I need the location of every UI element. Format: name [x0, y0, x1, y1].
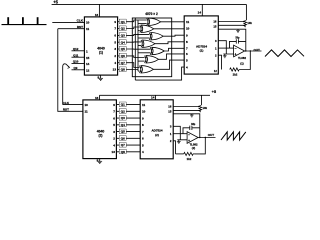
- svg-text:OUT: OUT: [208, 133, 215, 137]
- svg-text:11: 11: [86, 27, 90, 31]
- svg-text:10: 10: [186, 27, 190, 31]
- U2 pin 8 ground: [99, 159, 101, 162]
- resistor R1: [239, 51, 250, 70]
- svg-text:+: +: [235, 53, 237, 57]
- svg-text:1k2: 1k2: [233, 72, 238, 76]
- op-amp output wire: [245, 50, 262, 52]
- wires U1 outputs Q1..Q8 to gates: [118, 20, 153, 71]
- U4 VREF wire pin15: [218, 24, 245, 26]
- wires U2 outputs Q1..Q8 to DAC U5: [116, 105, 140, 152]
- ground: [178, 140, 180, 142]
- svg-text:15: 15: [86, 56, 90, 60]
- svg-text:1k2: 1k2: [187, 157, 192, 161]
- wire RST to U1 pin 11: [58, 28, 85, 30]
- svg-text:15: 15: [168, 109, 172, 113]
- sawtooth wave output symbol: [221, 132, 246, 140]
- XOR gate U3e: [150, 47, 164, 54]
- svg-text:Q5: Q5: [121, 130, 125, 134]
- U4 OUT1 pin1 to op-amp - input: [218, 47, 233, 49]
- XOR gate U3c: [149, 33, 163, 40]
- svg-text:Q8: Q8: [121, 68, 125, 72]
- feedback capacitor C2: [183, 128, 200, 134]
- svg-text:Q7: Q7: [121, 143, 125, 147]
- svg-text:Q7: Q7: [121, 61, 125, 65]
- ground: [191, 114, 193, 115]
- ground: [98, 78, 103, 80]
- clock pulse waveform annotation: [2, 17, 47, 24]
- svg-text:+5: +5: [212, 89, 217, 94]
- trimmer resistor vertical: [244, 20, 247, 27]
- wire Q8 under box to DAC pin 4: [135, 67, 184, 80]
- U5 VREF wire pin15: [173, 109, 200, 111]
- +5 drop to trimmer (bottom): [201, 95, 203, 105]
- svg-text:OUT: OUT: [254, 48, 261, 52]
- svg-text:(1): (1): [240, 61, 243, 65]
- svg-text:10: 10: [86, 21, 90, 25]
- U1 pin 16 to +5: [98, 4, 100, 17]
- svg-text:+5: +5: [53, 0, 58, 4]
- svg-text:16: 16: [213, 20, 217, 24]
- svg-text:10k: 10k: [247, 21, 252, 25]
- counter U1 4040 (1): [84, 17, 117, 75]
- svg-text:11: 11: [186, 20, 190, 24]
- +5 drop to trimmer: [245, 4, 247, 20]
- svg-text:11: 11: [142, 103, 146, 107]
- svg-text:Q2: Q2: [121, 27, 125, 31]
- U1 pin 8 ground: [100, 75, 102, 78]
- svg-text:13: 13: [112, 150, 116, 154]
- svg-text:12: 12: [86, 69, 90, 73]
- svg-text:16: 16: [95, 96, 99, 100]
- svg-text:Q6: Q6: [121, 54, 125, 58]
- svg-text:14: 14: [86, 62, 90, 66]
- svg-text:14: 14: [198, 11, 202, 15]
- svg-text:RST: RST: [77, 25, 83, 29]
- svg-text:14: 14: [151, 96, 155, 100]
- +5 supply rail (top): [52, 3, 247, 5]
- svg-text:CLK: CLK: [63, 101, 70, 105]
- svg-text:13: 13: [113, 68, 117, 72]
- svg-text:(2): (2): [192, 146, 195, 150]
- svg-text:−: −: [188, 133, 190, 137]
- svg-text:Q8: Q8: [121, 150, 125, 154]
- op-amp output wire: [198, 137, 215, 139]
- wire RST vertical to U2: [58, 29, 83, 112]
- XOR gate U3b: [140, 25, 154, 32]
- svg-text:16: 16: [168, 105, 172, 109]
- U4 pin3 to ground / op-amp + input: [218, 41, 233, 54]
- U4 OUT2 pin2 to summing resistor: [218, 55, 221, 69]
- XOR package box 4070 x 2: [132, 18, 171, 77]
- ground: [237, 29, 239, 30]
- svg-text:(2): (2): [99, 134, 103, 138]
- svg-text:10: 10: [142, 110, 146, 114]
- svg-text:10: 10: [85, 103, 89, 107]
- ground: [97, 161, 102, 163]
- svg-text:4070 × 2: 4070 × 2: [145, 12, 158, 16]
- svg-text:Q5: Q5: [121, 47, 125, 51]
- svg-text:Q10: Q10: [73, 60, 79, 64]
- U5 pin3 to ground / op-amp + input: [173, 126, 187, 140]
- svg-text:RST: RST: [63, 108, 69, 112]
- XOR gate U3d: [141, 40, 155, 47]
- svg-text:11: 11: [85, 110, 89, 114]
- svg-text:(2): (2): [155, 133, 159, 137]
- U5 OUT1 pin1 to op-amp - input: [173, 133, 187, 135]
- svg-text:Q9: Q9: [74, 66, 78, 70]
- svg-text:Q4: Q4: [121, 40, 125, 44]
- svg-text:(1): (1): [99, 51, 103, 55]
- svg-text:Q1: Q1: [121, 20, 125, 24]
- counter U2 4040 (2): [83, 100, 117, 159]
- wire CLK input to U1: [52, 21, 84, 23]
- XOR gate U3g: [140, 66, 154, 73]
- svg-text:Q2: Q2: [121, 109, 125, 113]
- U5 pin13 wire down to feedback: [173, 114, 200, 128]
- +5 branch rail (bottom): [100, 94, 211, 96]
- XOR gate U3f: [145, 56, 159, 63]
- svg-text:(1): (1): [200, 49, 204, 53]
- op-amp A2 TL082: [187, 132, 198, 150]
- U5 RFB wire pin16: [173, 106, 199, 108]
- svg-text:Q3: Q3: [121, 116, 125, 120]
- svg-text:−: −: [235, 47, 237, 51]
- svg-text:Q6: Q6: [121, 136, 125, 140]
- XOR gates U3 (7x): [140, 18, 165, 73]
- svg-text:16: 16: [95, 13, 99, 17]
- XOR gate U3a: [147, 18, 161, 25]
- svg-text:Q12: Q12: [73, 47, 79, 51]
- DAC U5 AD7524 (2): [140, 100, 173, 159]
- U5 pin 14 to +5: [155, 95, 157, 100]
- feedback capacitor C1: [230, 41, 246, 48]
- gate output wires to DAC: [154, 22, 185, 70]
- node labels Q1..Q8 (lower): [119, 102, 126, 154]
- svg-text:Q4: Q4: [121, 123, 125, 127]
- svg-text:15: 15: [213, 24, 217, 28]
- ground: [224, 54, 226, 56]
- svg-text:10k: 10k: [203, 106, 208, 110]
- DAC U4 AD7524 (1): [184, 16, 218, 74]
- svg-text:CLK: CLK: [77, 19, 84, 23]
- svg-text:Q3: Q3: [121, 34, 125, 38]
- svg-text:Q11: Q11: [73, 53, 79, 57]
- U1 unused outputs Q12 Q11 Q10 Q9 stubs: [72, 47, 85, 70]
- resistor R2: [195, 138, 206, 154]
- U4 pin 14 to +5: [201, 4, 203, 16]
- svg-text:TL082: TL082: [238, 56, 247, 60]
- U5 OUT2 pin2 to summing resistor: [173, 141, 175, 154]
- node labels Q1..Q8: [119, 19, 126, 72]
- U4 pin13 wire down to feedback: [218, 29, 246, 41]
- U4 RFB wire pin16: [218, 21, 244, 23]
- svg-text:33p: 33p: [191, 123, 196, 126]
- wire Q9 of U1 to CLK of U2 (with arrow): [63, 64, 70, 105]
- svg-text:33p: 33p: [235, 37, 240, 40]
- svg-text:Q1: Q1: [121, 103, 125, 107]
- U2 pin 16 to +5 branch: [99, 95, 101, 100]
- op-amp A1 TL082: [234, 45, 247, 65]
- triangle wave output symbol: [265, 50, 304, 57]
- trimmer resistor vertical: [199, 105, 202, 112]
- Q8 distribution bus verticals: [134, 18, 136, 80]
